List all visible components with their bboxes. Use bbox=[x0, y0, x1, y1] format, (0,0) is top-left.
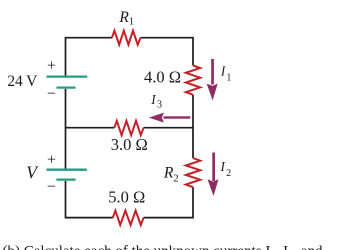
svg-text:I: I bbox=[220, 159, 226, 174]
svg-text:(b) Calculate each of the unkn: (b) Calculate each of the unknown curren… bbox=[3, 244, 323, 250]
svg-text:−: − bbox=[47, 85, 56, 102]
svg-text:3.0 Ω: 3.0 Ω bbox=[111, 135, 148, 154]
resistor 4.0 ohm bbox=[186, 66, 200, 95]
svg-text:R: R bbox=[118, 9, 129, 26]
current arrow I3 bbox=[149, 113, 190, 123]
resistor R1 bbox=[112, 31, 141, 45]
resistor 3.0 ohm bbox=[114, 121, 143, 135]
resistor R2 bbox=[186, 158, 200, 187]
svg-text:2: 2 bbox=[226, 168, 231, 179]
current arrow I2 bbox=[208, 153, 219, 197]
wire left middle segment bbox=[65, 89, 67, 169]
svg-text:+: + bbox=[47, 57, 56, 74]
wire middle left bbox=[66, 127, 115, 129]
svg-text:I: I bbox=[220, 63, 226, 78]
resistor 5.0 ohm bbox=[113, 211, 144, 225]
current arrow I1 bbox=[207, 59, 218, 101]
svg-text:I: I bbox=[150, 92, 156, 107]
wire middle right bbox=[144, 127, 193, 129]
svg-text:3: 3 bbox=[157, 100, 162, 111]
wire left bottom segment bbox=[66, 181, 113, 218]
battery 24V plates bbox=[47, 77, 88, 88]
wire right bottom segment bbox=[144, 187, 193, 217]
svg-text:1: 1 bbox=[129, 17, 134, 28]
svg-text:24 V: 24 V bbox=[7, 73, 38, 90]
svg-text:5.0 Ω: 5.0 Ω bbox=[108, 187, 145, 206]
battery V plates bbox=[47, 170, 87, 180]
wire top-right segment bbox=[141, 38, 194, 66]
wire top-left segment bbox=[66, 38, 113, 76]
svg-text:2: 2 bbox=[173, 173, 178, 184]
svg-text:4.0 Ω: 4.0 Ω bbox=[144, 67, 181, 86]
svg-text:−: − bbox=[47, 178, 56, 195]
svg-text:1: 1 bbox=[226, 72, 231, 83]
svg-text:R: R bbox=[163, 164, 174, 181]
svg-text:+: + bbox=[47, 151, 56, 168]
wire right between 4ohm and middle node bbox=[192, 95, 194, 158]
